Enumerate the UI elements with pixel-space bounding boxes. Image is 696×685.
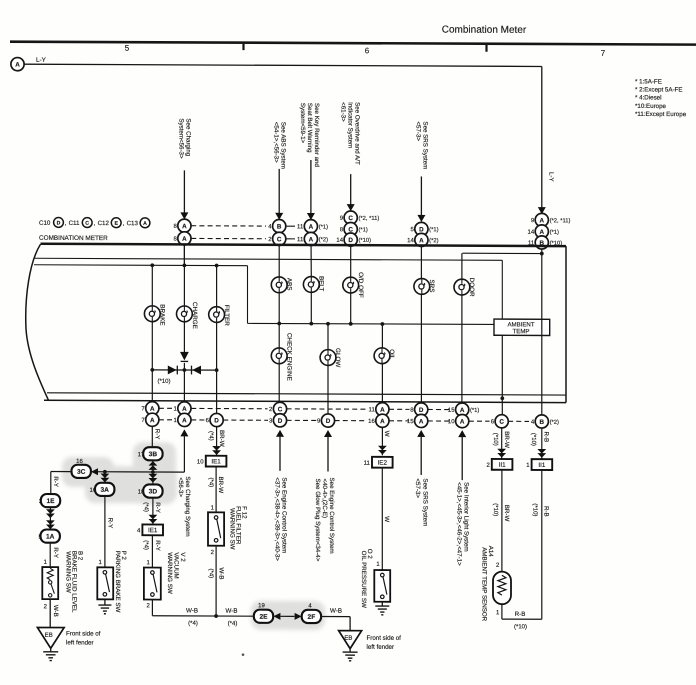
wire 2E to 2F with arrows — [273, 613, 301, 620]
svg-text:(*10): (*10) — [530, 433, 536, 446]
wire bus3 lamp common — [248, 321, 495, 326]
svg-text:W: W — [383, 431, 390, 437]
svg-text:WARNING SW: WARNING SW — [228, 508, 235, 550]
svg-text:System<59-1>: System<59-1> — [299, 103, 306, 144]
svg-text:(*1): (*1) — [550, 230, 559, 236]
svg-text:B: B — [277, 224, 282, 231]
svg-text:A: A — [380, 418, 385, 425]
wire group3 into meter — [350, 218, 352, 277]
connector pin 11(A)(*2) belt feed row2 — [297, 232, 328, 245]
connector pin 15(A) bottom row2 — [407, 414, 428, 427]
svg-text:See SRS System: See SRS System — [421, 121, 428, 169]
svg-text:16: 16 — [76, 459, 83, 465]
svg-text:*10:Europe: *10:Europe — [635, 103, 667, 110]
svg-text:BRAKE: BRAKE — [159, 304, 166, 325]
svg-text:<45-1>,<45-3>,<46-2>,<47-1>: <45-1>,<45-3>,<46-2>,<47-1> — [455, 482, 462, 566]
wire charging R-Y horizontal to 3C — [91, 468, 184, 475]
svg-text:C11: C11 — [69, 220, 80, 227]
svg-text:R-Y: R-Y — [52, 547, 59, 558]
svg-text:7: 7 — [601, 49, 606, 58]
connector IE1 to F-12 — [206, 456, 227, 467]
svg-text:* 4:Diesel: * 4:Diesel — [635, 94, 661, 101]
wire DOOR column — [461, 253, 463, 403]
diode line with D2 D3 — [150, 365, 218, 374]
wire through ambient box — [541, 319, 543, 335]
svg-text:(*4): (*4) — [143, 540, 149, 550]
wire ABS/CHECK ENGINE column — [278, 277, 280, 403]
arrow See SRS System into 5(D) — [414, 121, 428, 222]
connector pin 8(A) charging feed row1 — [173, 219, 191, 232]
wire arrow See SRS System into 15(A) — [414, 430, 428, 526]
svg-text:IE2: IE2 — [378, 460, 388, 467]
svg-text:PARKING BRAKE SW: PARKING BRAKE SW — [114, 551, 121, 613]
svg-text:OIL: OIL — [388, 349, 395, 360]
svg-text:(*4): (*4) — [207, 431, 213, 441]
connector pin 8(A) charging feed row2 — [173, 232, 191, 245]
svg-text:R-Y: R-Y — [154, 502, 161, 513]
connector pin 7(A) bottom row1 — [141, 402, 159, 415]
svg-text:14: 14 — [407, 238, 414, 244]
svg-text:(*10): (*10) — [157, 379, 170, 385]
svg-text:OIL PRESSURE SW: OIL PRESSURE SW — [360, 551, 367, 608]
indicator lamp BELT — [303, 277, 319, 293]
svg-text:3C: 3C — [77, 469, 86, 476]
svg-text:CHECK ENGINE: CHECK ENGINE — [285, 333, 292, 381]
connector pin 16(A) bottom row2 — [368, 414, 389, 427]
wire BELT column — [310, 276, 312, 323]
svg-text:,: , — [123, 220, 125, 227]
connector pin 4(B) ABS feed — [268, 219, 286, 232]
svg-text:*11:Except Europe: *11:Except Europe — [635, 111, 687, 118]
wire F-12 down to W-B run — [207, 546, 224, 616]
svg-text:A: A — [15, 62, 20, 69]
svg-text:BR-W: BR-W — [217, 477, 224, 494]
svg-text:(*1): (*1) — [429, 227, 438, 233]
wire 11(B) through ambient column — [541, 254, 543, 415]
svg-text:A: A — [182, 406, 187, 413]
svg-text:1A: 1A — [46, 534, 55, 541]
svg-text:See Key Reminder and: See Key Reminder and — [313, 103, 320, 168]
svg-text:17: 17 — [138, 452, 145, 458]
label See Charging System — [177, 476, 191, 536]
connector IE2 to O-2 — [372, 457, 393, 468]
dashed wire 8(A) to 4(B) — [191, 225, 266, 227]
svg-text:W-B: W-B — [218, 568, 225, 580]
svg-text:15: 15 — [448, 408, 455, 414]
svg-text:W: W — [383, 516, 390, 522]
svg-text:GLOW: GLOW — [334, 348, 341, 367]
ground at P-2 — [98, 599, 111, 613]
svg-text:A: A — [419, 237, 424, 244]
wire DOOR feed from 11(B) — [462, 251, 543, 255]
svg-text:11: 11 — [297, 237, 304, 243]
svg-text:<37-3>,<38-4>,<39-3>,<40-3>: <37-3>,<38-4>,<39-3>,<40-3> — [274, 477, 281, 561]
svg-text:A: A — [309, 236, 314, 243]
svg-text:L-Y: L-Y — [548, 172, 555, 182]
wire junction to 3A — [101, 472, 110, 484]
svg-text:W-B: W-B — [186, 607, 198, 614]
svg-text:3B: 3B — [149, 451, 158, 458]
indicator lamp FILTER — [209, 307, 225, 323]
connector pin 11(A) bottom row1 — [369, 403, 389, 416]
wire SRS column — [420, 278, 422, 403]
wire IE2 to oil pressure switch — [376, 468, 390, 570]
svg-text:D: D — [278, 418, 283, 425]
svg-text:Front side of: Front side of — [66, 630, 101, 637]
svg-text:<57-3>: <57-3> — [414, 478, 421, 498]
arrow See ABS System into 4(B) — [273, 122, 287, 220]
svg-text:(*10): (*10) — [492, 433, 498, 446]
wire from 1(A) down to junction — [180, 429, 188, 472]
svg-text:BR-W: BR-W — [218, 430, 225, 447]
svg-text:CHARGE: CHARGE — [191, 302, 198, 329]
svg-text:A: A — [182, 417, 187, 424]
svg-text:19: 19 — [258, 603, 265, 609]
svg-text:(*4): (*4) — [228, 621, 238, 627]
svg-text:D: D — [57, 221, 61, 227]
svg-text:C: C — [278, 406, 283, 413]
svg-text:(*2, *11): (*2, *11) — [359, 216, 380, 222]
ground EB left fender — [37, 627, 100, 660]
ambient temp gauge box — [494, 319, 550, 335]
svg-text:,: , — [94, 220, 96, 227]
dashed wires bottom row1 — [159, 408, 451, 409]
svg-text:* 1:5A-FE: * 1:5A-FE — [635, 78, 662, 85]
svg-text:<56-3>: <56-3> — [177, 477, 184, 497]
indicator lamp BRAKE — [144, 306, 160, 322]
svg-text:BR-W: BR-W — [503, 431, 510, 448]
wire 1A to brake fluid switch — [44, 543, 59, 567]
svg-text:EB: EB — [45, 633, 53, 639]
svg-text:* 2:Except 5A-FE: * 2:Except 5A-FE — [635, 86, 682, 93]
svg-text:D: D — [214, 417, 219, 424]
svg-text:14: 14 — [336, 238, 343, 244]
wire R-B sensor return — [502, 604, 542, 630]
svg-text:A: A — [182, 223, 187, 230]
connector pin 2(C) bottom row1 — [269, 402, 287, 415]
svg-text:(*4): (*4) — [143, 502, 149, 512]
svg-text:(*2): (*2) — [319, 237, 328, 243]
wire B-2 to ground EB — [44, 599, 59, 627]
svg-text:R-Y: R-Y — [106, 518, 113, 529]
arrow See Charging System into 8(A) — [178, 118, 192, 219]
gray highlight blob around connectors 2E/2F — [251, 601, 325, 630]
wire 6(D) to IE1 fuel filter — [207, 427, 225, 456]
indicator lamp OIL — [374, 348, 390, 364]
svg-text:11: 11 — [369, 407, 376, 413]
wire 3D to IE1 — [143, 498, 162, 525]
wire 3A to parking brake switch — [98, 496, 113, 567]
connector pin 14(A)(*2) SRS feed — [407, 233, 438, 246]
svg-text:A: A — [460, 407, 465, 414]
svg-text:(*1): (*1) — [359, 227, 368, 233]
wire 1E to 1A with chevrons — [46, 507, 55, 529]
wire BRAKE column — [151, 265, 153, 402]
switch V-2 VACUUM WARNING SW — [144, 552, 186, 609]
svg-text:(*4): (*4) — [208, 478, 214, 488]
wire group4 into meter — [420, 229, 422, 279]
wire 3C left and down to 1E — [51, 472, 72, 495]
svg-text:R-Y: R-Y — [154, 429, 161, 440]
wire 3B to junction with chevrons — [149, 460, 158, 473]
svg-text:6: 6 — [365, 46, 370, 55]
svg-text:See Engine Control System: See Engine Control System — [281, 477, 288, 553]
svg-text:18: 18 — [138, 490, 145, 496]
wire 16(A) to IE2 — [378, 427, 390, 455]
connector pin 11(A)(*1) belt feed — [297, 220, 328, 233]
svg-text:A: A — [460, 419, 465, 426]
svg-text:A: A — [182, 236, 187, 243]
wire II1 right down — [532, 470, 550, 619]
svg-text:W-B: W-B — [52, 605, 59, 617]
connector pin 7(A) bottom row2 — [141, 413, 159, 426]
svg-text:System<56-3>: System<56-3> — [178, 118, 185, 159]
wire group5 into meter — [541, 220, 543, 254]
wire arrow See Engine Control / Glow Plug into 9(D) — [314, 430, 335, 562]
wire CHARGE column — [183, 245, 185, 402]
wire bus L2 upper — [34, 258, 502, 319]
connector pin 3(D) bottom row2 — [269, 414, 287, 427]
switch B-2 BRAKE FLUID LEVEL WARNING SW — [42, 551, 83, 613]
svg-text:IE1: IE1 — [148, 527, 158, 534]
svg-text:1E: 1E — [46, 498, 55, 505]
wire group2b into meter — [310, 226, 312, 276]
svg-text:EB: EB — [344, 636, 352, 642]
svg-text:A: A — [309, 224, 314, 231]
svg-text:<40-4>,(2C-E): <40-4>,(2C-E) — [321, 479, 328, 519]
arrow See Overdrive and A/T Indicator System into 9(C) — [340, 102, 361, 211]
connector pin 9(D) bottom row2 — [317, 414, 335, 427]
svg-text:See Charging: See Charging — [185, 118, 192, 156]
svg-text:(*1): (*1) — [470, 408, 479, 414]
wire arrow See Interior Light System into 10(A) — [455, 430, 469, 566]
wire junction to 3D — [149, 472, 158, 485]
wire L-Y from node A to combination meter pin 9(A) — [24, 57, 554, 215]
connector pin 15(A)(*1) bottom row1 — [448, 403, 479, 416]
wire bus L1 with taps — [34, 263, 248, 324]
wire W-B from V-2 to 2E — [152, 600, 253, 628]
svg-text:(*4): (*4) — [207, 569, 213, 579]
indicator lamp CHARGE — [177, 306, 193, 322]
connector 2E — [254, 610, 273, 623]
svg-text:WARNING SW: WARNING SW — [64, 551, 71, 593]
svg-text:R-B: R-B — [543, 506, 550, 517]
svg-text:C10: C10 — [39, 220, 51, 227]
connector 3B — [143, 447, 162, 460]
ground EB right front side of left fender — [339, 631, 402, 661]
svg-text:R-B: R-B — [515, 611, 526, 618]
svg-text:R-Y: R-Y — [52, 476, 59, 487]
wire group2 into meter — [278, 226, 280, 277]
svg-text:C: C — [499, 419, 504, 426]
connector pin 11(B)(*10) L-Y feed — [528, 236, 562, 249]
svg-text:BELT: BELT — [318, 276, 325, 291]
svg-text:10: 10 — [448, 419, 455, 425]
switch O-2 OIL PRESSURE SW — [360, 549, 390, 608]
arrow See Key Reminder and Seat Belt Warning System into 11(A) — [299, 103, 320, 220]
svg-text:Seat Belt Warning: Seat Belt Warning — [306, 103, 313, 153]
svg-text:A: A — [540, 229, 545, 236]
svg-text:A: A — [150, 406, 155, 413]
svg-text:Front side of: Front side of — [367, 635, 402, 642]
svg-text:left fender: left fender — [367, 644, 395, 651]
wire GLOW column — [327, 324, 329, 414]
svg-text:(*2, *11): (*2, *11) — [550, 218, 571, 224]
svg-text:C: C — [348, 215, 353, 222]
svg-text:(*10): (*10) — [514, 624, 527, 630]
connector pin 1(A) bottom row1 — [173, 402, 191, 415]
connector 1A — [41, 529, 60, 542]
wire OIL column — [381, 324, 383, 403]
svg-text:14: 14 — [528, 230, 535, 236]
svg-text:ABS: ABS — [285, 278, 292, 291]
node A source — [11, 58, 24, 71]
wire FILTER column — [216, 266, 218, 414]
ground at O-2 — [375, 602, 389, 615]
svg-text:C12: C12 — [98, 220, 110, 227]
svg-text:FILTER: FILTER — [223, 305, 230, 327]
svg-text:IE1: IE1 — [211, 458, 221, 465]
svg-text:BR-W: BR-W — [503, 505, 510, 522]
svg-text:2E: 2E — [259, 614, 268, 621]
svg-text:(*10): (*10) — [492, 503, 498, 516]
svg-text:DOOR: DOOR — [468, 278, 475, 297]
indicator lamp DOOR — [454, 279, 470, 295]
svg-text:3A: 3A — [100, 487, 109, 494]
svg-text:See ABS System: See ABS System — [280, 122, 287, 169]
wire group1 into meter — [183, 226, 185, 266]
svg-text:W-B: W-B — [330, 608, 342, 615]
svg-text:See Engine Control System: See Engine Control System — [328, 478, 335, 554]
wire O/D OFF column — [350, 277, 352, 324]
footnote legend — [635, 78, 687, 118]
dashed wires bottom row2 — [159, 420, 529, 422]
connector pin 10(A) bottom row2 — [448, 414, 469, 427]
connector II1 ambient sensor - — [532, 459, 553, 470]
wire arrow See Engine Control System into 3(D) — [274, 430, 288, 562]
svg-text:II1: II1 — [538, 462, 545, 469]
svg-text:L-Y: L-Y — [36, 57, 47, 64]
svg-text:W-B: W-B — [226, 608, 238, 615]
wire IE1 to vacuum switch — [143, 535, 162, 567]
svg-text:10: 10 — [197, 459, 204, 465]
svg-text:A: A — [419, 418, 424, 425]
connector pin 8(D) bottom row1 — [410, 403, 428, 416]
connector IE1 to V-2 — [142, 524, 163, 535]
svg-text:2F: 2F — [308, 614, 316, 621]
indicator lamp ABS — [271, 277, 287, 293]
svg-text:D: D — [348, 237, 353, 244]
sensor A14 AMBIENT TEMP SENSOR — [481, 546, 512, 622]
svg-text:(*10): (*10) — [532, 503, 538, 516]
switch P-2 PARKING BRAKE SW — [97, 551, 127, 613]
svg-text:II1: II1 — [499, 462, 506, 469]
wire 2F to ground EB right — [321, 608, 350, 631]
svg-text:B: B — [540, 419, 545, 426]
indicator lamp CHECK ENGINE — [271, 348, 287, 364]
svg-text:11: 11 — [364, 461, 371, 467]
speck — [242, 653, 245, 656]
switch F-12 FUEL FILTER WARNING SW — [208, 506, 247, 556]
wire ambient feed column — [500, 335, 504, 415]
svg-text:<54-1>,<56-3>: <54-1>,<56-3> — [273, 122, 280, 163]
connector pin 9(C)(*2, *11) O/D feed — [340, 211, 380, 224]
connector II1 ambient sensor + — [492, 459, 513, 470]
svg-text:Indicator System: Indicator System — [347, 102, 354, 148]
svg-text:A: A — [150, 417, 155, 424]
svg-text:3D: 3D — [149, 488, 158, 495]
connector pin 14(D)(*10) O/D feed — [336, 233, 371, 246]
ruler line with section numbers 5 6 7 — [10, 42, 696, 58]
svg-text:O/D OFF: O/D OFF — [357, 272, 364, 298]
svg-text:See Interior Light System: See Interior Light System — [463, 482, 470, 552]
indicator lamp SRS — [414, 279, 430, 295]
connector pin 2(C) ABS feed row2 — [268, 232, 286, 245]
svg-text:See SRS System: See SRS System — [421, 478, 428, 526]
wire IE1 to F-12 — [208, 467, 224, 513]
dashed wire 2(C) to 11(A) — [286, 238, 295, 240]
svg-text:C: C — [277, 236, 282, 243]
connector pin 6(D) bottom row2 — [206, 413, 224, 426]
svg-text:,: , — [65, 220, 67, 227]
svg-text:A: A — [540, 217, 545, 224]
svg-text:Combination Meter: Combination Meter — [442, 25, 527, 36]
svg-text:(*2): (*2) — [550, 420, 559, 426]
svg-text:COMBINATION METER: COMBINATION METER — [39, 235, 108, 242]
svg-text:D: D — [419, 407, 424, 414]
connector pin 8(C)(*1) O/D feed — [340, 222, 368, 235]
svg-text:11: 11 — [297, 224, 304, 230]
connector 3A — [95, 483, 114, 496]
wire 4(B) to II1 right — [530, 428, 550, 459]
svg-text:R-Y: R-Y — [154, 540, 161, 551]
connector pin 14(A)(*1) L-Y feed — [528, 225, 559, 238]
svg-text:AMBIENT TEMP SENSOR: AMBIENT TEMP SENSOR — [481, 547, 488, 621]
svg-text:A: A — [143, 221, 147, 227]
svg-text:See Overdrive and A/T: See Overdrive and A/T — [354, 102, 361, 165]
indicator lamp O/D OFF — [343, 277, 359, 293]
svg-text:C13: C13 — [127, 220, 139, 227]
svg-text:16: 16 — [368, 419, 375, 425]
svg-text:TEMP: TEMP — [513, 328, 530, 335]
dashed wire 8(A) to 2(C) — [191, 237, 266, 239]
svg-text:<57-3>: <57-3> — [414, 121, 421, 141]
diode D1 down — [180, 352, 189, 362]
connector header C10 C11 C12 C13 — [39, 217, 150, 227]
svg-text:16: 16 — [90, 488, 97, 494]
svg-text:See Glow Plug System<34-4>: See Glow Plug System<34-4> — [314, 478, 321, 561]
svg-text:E: E — [114, 221, 118, 227]
svg-text:5: 5 — [125, 44, 130, 53]
wire II1 to ambient temp sensor — [492, 470, 510, 572]
connector 3C — [72, 465, 91, 478]
connector 3D — [143, 484, 162, 497]
connector 1E — [41, 494, 60, 507]
connector pin 5(D)(*1) SRS feed — [410, 222, 438, 235]
connector pin 1(A) bottom row2 — [173, 413, 191, 426]
connector pin 9(A)(*2, *11) L-Y feed — [531, 213, 571, 226]
connector pin 6(C) bottom row2 — [491, 415, 509, 428]
svg-text:(*2): (*2) — [429, 238, 438, 244]
dashed wire 4(B) to 11(A) — [286, 225, 295, 227]
svg-text:(*10): (*10) — [359, 238, 372, 244]
combination meter box outline — [26, 244, 566, 403]
svg-text:WARNING SW: WARNING SW — [166, 552, 173, 594]
svg-text:D: D — [419, 226, 424, 233]
svg-text:<61-3>: <61-3> — [340, 102, 347, 122]
svg-text:(*1): (*1) — [319, 224, 328, 230]
connector pin 4(B)(*2) bottom row2 — [531, 415, 559, 428]
